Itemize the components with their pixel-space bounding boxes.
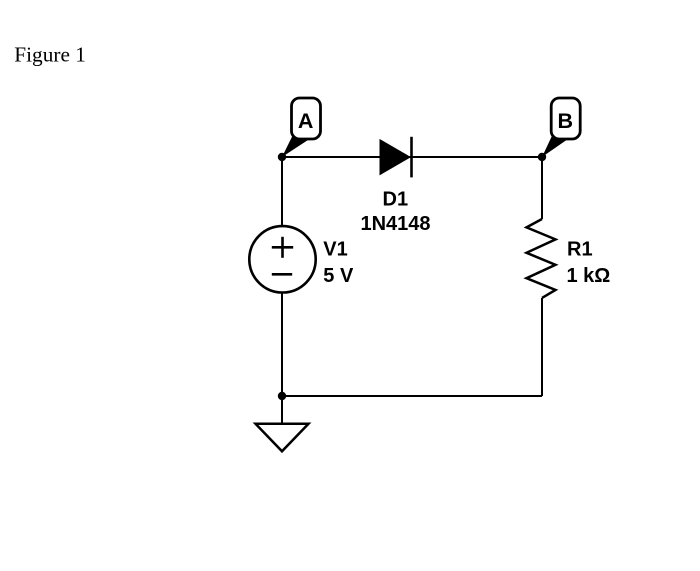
junction node B (538, 153, 546, 161)
wire left upper (node A to V1 plus terminal) (281, 157, 283, 226)
wire right upper (node B to R1 top) (541, 157, 543, 219)
diode D1 cathode bar (410, 137, 413, 178)
svg-text:Figure 1: Figure 1 (14, 42, 86, 66)
svg-text:1 kΩ: 1 kΩ (567, 265, 611, 287)
V1 plus sign (272, 237, 293, 258)
svg-text:B: B (558, 109, 574, 133)
ground symbol stub (281, 396, 283, 424)
svg-text:A: A (298, 109, 314, 133)
junction bottom (ground node) (278, 392, 286, 400)
resistor R1 zigzag (527, 219, 556, 298)
wire right lower (R1 bottom to bottom wire) (541, 298, 543, 396)
node label A box (292, 98, 321, 139)
wire bottom (ground net) (282, 395, 542, 397)
diode D1 triangle (anode) (380, 139, 412, 176)
node label A leader (282, 136, 308, 157)
svg-text:1N4148: 1N4148 (360, 213, 430, 235)
node label B box (551, 98, 580, 139)
V1 minus sign (272, 273, 292, 276)
svg-text:5 V: 5 V (323, 265, 354, 287)
svg-text:D1: D1 (383, 189, 409, 211)
svg-text:V1: V1 (323, 239, 347, 261)
wire left lower (V1 minus terminal to bottom node) (281, 293, 283, 396)
wire top (node A to node B) (282, 156, 542, 158)
junction node A (278, 153, 286, 161)
svg-text:R1: R1 (567, 239, 593, 261)
ground symbol triangle (256, 424, 309, 452)
voltage source V1 circle (249, 226, 315, 292)
node label B leader (542, 135, 568, 157)
